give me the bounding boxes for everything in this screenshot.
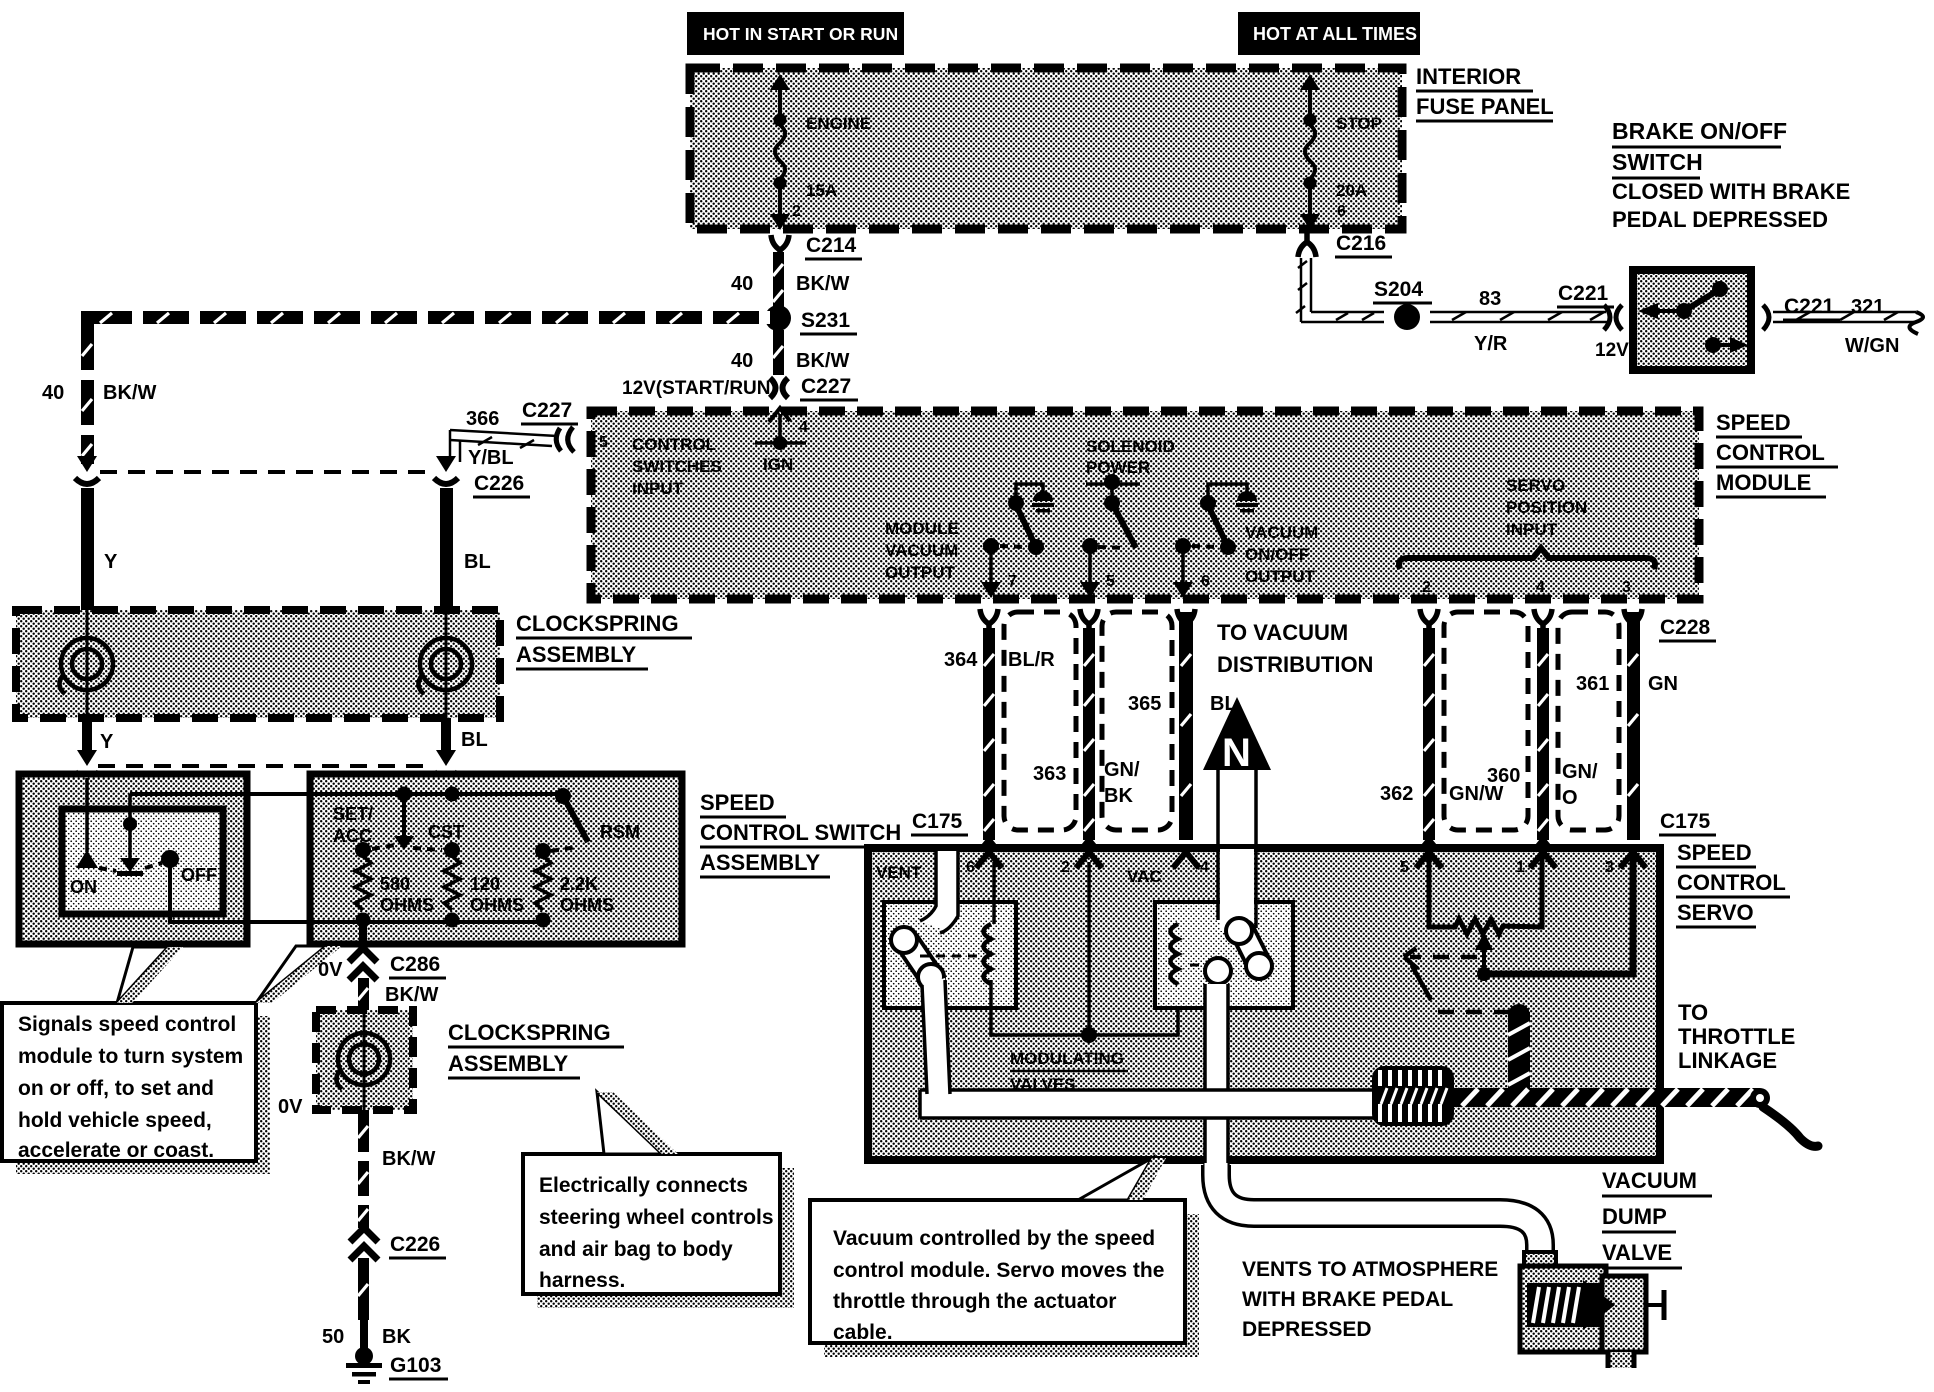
svg-text:IGN: IGN: [763, 455, 793, 474]
throttle cable hatched rod: [1450, 1088, 1818, 1146]
svg-text:Y: Y: [100, 731, 114, 753]
wire 83 Y/R (S204 run): [1308, 312, 1610, 322]
svg-text:G103: G103: [390, 1354, 441, 1377]
label C228: [1659, 616, 1716, 641]
wire Y below clockspring: [82, 718, 92, 752]
svg-text:C227: C227: [801, 375, 851, 398]
svg-text:40: 40: [731, 273, 753, 295]
svg-text:361: 361: [1576, 673, 1609, 695]
connector C175 dashed shell left B: [1102, 612, 1172, 830]
fuse ENGINE 15A: [775, 90, 785, 222]
pot wiper arrow: [1482, 948, 1486, 974]
svg-text:SPEED: SPEED: [1677, 840, 1752, 865]
wire pin6 to valve coil: [992, 862, 996, 924]
vacuum dump valve: [1520, 1252, 1664, 1368]
svg-text:CONTROL: CONTROL: [632, 435, 716, 454]
svg-text:362: 362: [1380, 783, 1413, 805]
svg-text:SPEED: SPEED: [1716, 410, 1791, 435]
vacuum down tube white: [1205, 984, 1228, 1168]
svg-text:steering wheel controls: steering wheel controls: [539, 1206, 774, 1229]
vent valve plunger: [891, 927, 944, 990]
svg-text:Signals speed control: Signals speed control: [18, 1013, 236, 1036]
svg-text:DUMP: DUMP: [1602, 1204, 1667, 1229]
label MODULATING VALVES: [1010, 1049, 1128, 1097]
svg-text:control module. Servo moves th: control module. Servo moves the: [833, 1259, 1164, 1282]
label INTERIOR FUSE PANEL: [1416, 64, 1554, 121]
resistor R 580 OHMS: [355, 856, 371, 910]
SET/ACC contact: [355, 842, 371, 858]
label C175 left: [911, 810, 968, 835]
label SPEED CONTROL SWITCH ASSEMBLY: [700, 790, 918, 877]
svg-text:W/GN: W/GN: [1845, 335, 1899, 357]
wire 365 BL: [1179, 612, 1193, 840]
svg-text:C216: C216: [1336, 232, 1386, 255]
wire 362 GN/W: [1423, 628, 1435, 840]
svg-text:OUTPUT: OUTPUT: [1245, 567, 1316, 586]
svg-text:SOLENOID: SOLENOID: [1086, 437, 1175, 456]
connector C175 dashed shell left A: [1004, 612, 1076, 830]
svg-text:12V(START/RUN): 12V(START/RUN): [622, 378, 777, 399]
CST to 120 dash: [413, 848, 442, 850]
C226 boundary dashed line: [100, 470, 432, 474]
svg-text:BK/W: BK/W: [382, 1148, 435, 1170]
svg-text:BK/W: BK/W: [796, 350, 849, 372]
svg-text:SET/: SET/: [333, 804, 373, 824]
svg-text:BRAKE ON/OFF: BRAKE ON/OFF: [1612, 118, 1787, 144]
svg-text:364: 364: [944, 649, 978, 671]
svg-text:CLOCKSPRING: CLOCKSPRING: [448, 1020, 611, 1045]
svg-text:OFF: OFF: [181, 865, 217, 885]
servo potentiometer loop (pin5 to pin1): [1429, 856, 1542, 934]
callout 3 pointer: [1078, 1158, 1166, 1200]
module switch 1 (module vacuum output): [981, 484, 1054, 598]
svg-text:on or off, to set and: on or off, to set and: [18, 1077, 214, 1100]
label VACUUM DUMP VALVE: [1602, 1168, 1712, 1268]
on/off wiper: [128, 794, 132, 858]
callout pointer from switch assembly box: [256, 946, 342, 1003]
speed control switch assembly box: [310, 774, 682, 944]
svg-text:LINKAGE: LINKAGE: [1678, 1048, 1777, 1073]
vent tube white: [920, 851, 958, 933]
wire 366 Y/BL from C227: [450, 430, 557, 462]
wire 364 BL/R: [983, 628, 995, 840]
svg-text:VALVE: VALVE: [1602, 1240, 1672, 1265]
svg-text:TO: TO: [1678, 1000, 1708, 1025]
svg-text:WITH BRAKE PEDAL: WITH BRAKE PEDAL: [1242, 1288, 1453, 1311]
svg-text:C227: C227: [522, 399, 572, 422]
svg-text:5: 5: [599, 434, 608, 451]
svg-text:and air bag to body: and air bag to body: [539, 1238, 733, 1261]
svg-text:ASSEMBLY: ASSEMBLY: [516, 642, 637, 667]
svg-text:MODULE: MODULE: [885, 519, 959, 538]
callout 2 pointer: [597, 1092, 678, 1154]
connector C286 left half: [77, 750, 97, 766]
svg-text:BK: BK: [382, 1326, 411, 1348]
svg-text:VACUUM: VACUUM: [885, 541, 958, 560]
svg-text:2: 2: [792, 203, 801, 220]
connector C226 left half (arrow+cup): [77, 456, 97, 472]
connector C286 chevrons up: [349, 948, 377, 980]
svg-text:HOT IN START OR RUN: HOT IN START OR RUN: [703, 24, 898, 44]
svg-text:360: 360: [1487, 765, 1520, 787]
clockspring coil 2: [363, 1010, 366, 1110]
svg-text:15A: 15A: [806, 181, 837, 200]
vent valve coil: [984, 924, 992, 984]
modulating valve left plate: [884, 902, 1016, 1008]
wiper wire to pin3: [1484, 856, 1633, 974]
svg-text:ACC: ACC: [333, 826, 372, 846]
svg-text:accelerate or coast.: accelerate or coast.: [18, 1139, 214, 1162]
brake switch contacts: [1638, 281, 1748, 353]
wire Y (left, to clockspring): [81, 488, 94, 610]
wire pin2 down to junction: [1087, 862, 1091, 1035]
splice S204: [1394, 304, 1420, 330]
node on rail 2: [445, 787, 460, 802]
connector C214: [771, 235, 789, 262]
svg-text:BL: BL: [461, 729, 488, 751]
svg-text:5: 5: [1106, 573, 1115, 590]
callout: signals speed control: [2, 1003, 270, 1174]
svg-text:INPUT: INPUT: [1506, 520, 1558, 539]
svg-text:3: 3: [1622, 579, 1631, 596]
svg-text:TO VACUUM: TO VACUUM: [1217, 620, 1348, 645]
wire 40 BK/W (C214 to S231): [773, 252, 784, 312]
svg-text:SERVO: SERVO: [1506, 476, 1565, 495]
callout: electrically connects: [523, 1154, 794, 1308]
label CLOCKSPRING ASSEMBLY: [516, 611, 692, 669]
connector C228 dashed shell right A: [1444, 612, 1528, 830]
svg-text:Y: Y: [104, 551, 118, 573]
svg-text:ON/OFF: ON/OFF: [1245, 545, 1309, 564]
module switch 2 (solenoid power): [1080, 474, 1140, 598]
resistor R 120 OHMS: [444, 856, 460, 910]
svg-text:6: 6: [1337, 203, 1346, 220]
wire 40 BK/W horizontal (S231 to left): [81, 311, 770, 324]
svg-text:SERVO: SERVO: [1677, 900, 1754, 925]
svg-text:4: 4: [799, 419, 808, 436]
svg-text:S231: S231: [801, 309, 850, 332]
svg-text:VAC: VAC: [1127, 867, 1162, 886]
svg-text:C214: C214: [806, 234, 857, 257]
wire 40 BK/W (S231 to C227): [773, 330, 784, 375]
pin 4 IGN arrow: [755, 408, 808, 474]
svg-text:DEPRESSED: DEPRESSED: [1242, 1318, 1372, 1341]
brake on/off switch box: [1633, 270, 1751, 370]
svg-text:N: N: [1222, 731, 1251, 775]
svg-text:Electrically connects: Electrically connects: [539, 1174, 748, 1197]
wire OFF down and right: [170, 864, 310, 922]
svg-text:Vacuum controlled by the speed: Vacuum controlled by the speed: [833, 1227, 1155, 1250]
svg-text:40: 40: [42, 382, 64, 404]
svg-text:ON: ON: [70, 877, 97, 897]
wire BK/W below clockspring 2: [358, 1110, 369, 1228]
wire into ON contact: [85, 778, 89, 852]
120 contact: [444, 842, 460, 858]
servo pin arrows and numbers: [976, 852, 1002, 868]
svg-text:6: 6: [1201, 573, 1210, 590]
svg-text:throttle through the actuator: throttle through the actuator: [833, 1290, 1116, 1313]
svg-text:CLOSED WITH BRAKE: CLOSED WITH BRAKE: [1612, 179, 1850, 204]
svg-text:Y/R: Y/R: [1474, 333, 1508, 355]
svg-text:BK: BK: [1104, 785, 1133, 807]
svg-text:ENGINE: ENGINE: [806, 114, 871, 133]
fuse STOP 20A: [1305, 90, 1315, 222]
connector C221 left: [1557, 282, 1614, 307]
svg-text:BK/W: BK/W: [103, 382, 156, 404]
connector C216: [1298, 230, 1316, 257]
svg-text:RSM: RSM: [600, 822, 640, 842]
wire BL below clockspring: [441, 718, 451, 752]
label SPEED CONTROL SERVO: [1676, 840, 1790, 927]
header HOT AT ALL TIMES: [1238, 12, 1420, 55]
svg-text:CLOCKSPRING: CLOCKSPRING: [516, 611, 679, 636]
label CLOCKSPRING ASSEMBLY 2: [448, 1020, 624, 1078]
speed control module box: [591, 411, 1699, 599]
svg-text:C226: C226: [390, 1233, 440, 1256]
vent tube down white: [922, 978, 950, 1094]
vertical linkage rod hatched: [1508, 1004, 1530, 1094]
interior fuse panel box: [690, 68, 1402, 229]
svg-text:STOP: STOP: [1336, 114, 1382, 133]
svg-text:6: 6: [966, 859, 975, 876]
svg-text:OHMS: OHMS: [470, 895, 524, 915]
label BRAKE ON/OFF SWITCH: [1612, 118, 1850, 232]
svg-text:CONTROL: CONTROL: [1677, 870, 1786, 895]
modulating valve right plate: [1155, 902, 1293, 1008]
svg-text:120: 120: [470, 874, 500, 894]
ground G103: [346, 1347, 382, 1384]
callout pointer from on/off box: [117, 947, 183, 1003]
svg-text:THROTTLE: THROTTLE: [1678, 1024, 1795, 1049]
svg-text:580: 580: [380, 874, 410, 894]
wire 50 BK: [358, 1258, 369, 1320]
switch assembly top rail: [310, 792, 563, 796]
2.2K contact: [535, 843, 551, 859]
svg-text:module to turn system: module to turn system: [18, 1045, 243, 1068]
svg-text:BL: BL: [464, 551, 491, 573]
svg-text:2: 2: [1061, 859, 1070, 876]
svg-text:2.2K: 2.2K: [560, 874, 598, 894]
wire 363 GN/BK: [1083, 628, 1095, 840]
svg-text:PEDAL DEPRESSED: PEDAL DEPRESSED: [1612, 207, 1828, 232]
svg-text:321: 321: [1851, 296, 1884, 318]
svg-text:20A: 20A: [1336, 181, 1367, 200]
wire 360 GN/O: [1537, 628, 1549, 840]
speed control servo box: [868, 848, 1660, 1160]
svg-text:CONTROL SWITCH: CONTROL SWITCH: [700, 820, 901, 845]
wire BL (right, to clockspring): [440, 488, 453, 610]
svg-text:C221: C221: [1784, 295, 1835, 318]
svg-text:S204: S204: [1374, 278, 1423, 301]
svg-text:OHMS: OHMS: [380, 895, 434, 915]
svg-text:VENTS TO ATMOSPHERE: VENTS TO ATMOSPHERE: [1242, 1258, 1498, 1281]
svg-text:POWER: POWER: [1086, 458, 1150, 477]
svg-text:DISTRIBUTION: DISTRIBUTION: [1217, 652, 1373, 677]
vac valve plunger: [1205, 918, 1272, 984]
on/off switch inner plate: [62, 809, 223, 914]
header HOT IN START OR RUN: [687, 12, 904, 55]
vac tube from N arrow into valve: [1218, 849, 1256, 931]
splice S231: [765, 305, 791, 331]
svg-text:VACUUM: VACUUM: [1602, 1168, 1697, 1193]
svg-text:365: 365: [1128, 693, 1161, 715]
connector C226 right half: [436, 456, 456, 472]
svg-text:C226: C226: [474, 472, 524, 495]
svg-text:GN: GN: [1648, 673, 1678, 695]
connector C226 chevrons up: [350, 1228, 378, 1260]
connector C286 right half: [436, 750, 456, 766]
resistor R 2.2K OHMS: [535, 856, 551, 910]
svg-text:GN/: GN/: [1562, 761, 1598, 783]
svg-text:VENT: VENT: [876, 863, 922, 882]
servo position input bracket: [1399, 548, 1655, 569]
svg-text:hold vehicle speed,: hold vehicle speed,: [18, 1109, 212, 1132]
label SPEED CONTROL MODULE: [1716, 410, 1838, 497]
speed control on/off switch box: [19, 774, 247, 944]
wire from 363 down: [359, 922, 367, 950]
svg-text:cable.: cable.: [833, 1321, 893, 1344]
svg-text:INTERIOR: INTERIOR: [1416, 64, 1521, 89]
RSM switch lever: [555, 788, 571, 804]
svg-text:C286: C286: [390, 953, 440, 976]
svg-text:2: 2: [1422, 579, 1431, 596]
wire wiper to switch assembly: [130, 792, 310, 796]
wire 40 BK/W left vertical: [81, 324, 94, 464]
svg-text:CST: CST: [428, 822, 464, 842]
svg-text:SWITCHES: SWITCHES: [632, 457, 722, 476]
svg-text:CONTROL: CONTROL: [1716, 440, 1825, 465]
svg-text:POSITION: POSITION: [1506, 498, 1587, 517]
svg-text:C228: C228: [1660, 616, 1711, 639]
svg-text:C221: C221: [1558, 282, 1609, 305]
label C175 right: [1659, 810, 1716, 835]
vacuum tube servo to dump valve: [1216, 1163, 1540, 1256]
pot mech link dashed: [1404, 948, 1512, 1012]
ON contact triangle: [76, 850, 98, 868]
actuator spring: [1372, 1066, 1454, 1126]
svg-text:FUSE PANEL: FUSE PANEL: [1416, 94, 1554, 119]
svg-text:50: 50: [322, 1326, 344, 1348]
svg-text:363: 363: [1033, 763, 1066, 785]
svg-text:7: 7: [1008, 573, 1017, 590]
svg-text:BK/W: BK/W: [796, 273, 849, 295]
node on rail: [397, 787, 412, 802]
callout: vacuum controlled: [810, 1200, 1199, 1357]
svg-text:0V: 0V: [278, 1096, 303, 1118]
svg-text:O: O: [1562, 787, 1578, 809]
svg-text:HOT AT ALL TIMES: HOT AT ALL TIMES: [1253, 24, 1417, 44]
connector C221 right: [1763, 305, 1769, 330]
svg-text:C175: C175: [912, 810, 963, 833]
module switch 3 (vacuum on/off output): [1173, 484, 1258, 598]
connector C227 fork: [556, 427, 574, 452]
svg-text:366: 366: [466, 408, 499, 430]
OFF contact: [161, 850, 179, 868]
actuator rod channel white: [920, 1090, 1375, 1118]
clockspring coil left: [86, 610, 89, 718]
CST wiper arrow: [402, 794, 406, 836]
svg-text:SPEED: SPEED: [700, 790, 775, 815]
svg-text:MODULE: MODULE: [1716, 470, 1811, 495]
svg-text:OUTPUT: OUTPUT: [885, 563, 956, 582]
wire 361 GN: [1627, 612, 1640, 840]
svg-text:INPUT: INPUT: [632, 479, 684, 498]
clockspring coil right: [445, 610, 448, 718]
svg-text:4: 4: [1200, 859, 1209, 876]
svg-text:ASSEMBLY: ASSEMBLY: [700, 850, 821, 875]
bottom rail connecting resistors: [247, 920, 543, 924]
svg-text:OHMS: OHMS: [560, 895, 614, 915]
svg-text:GN/: GN/: [1104, 759, 1140, 781]
connector C227: [770, 378, 788, 398]
vacuum arrow N: [1203, 697, 1271, 925]
modulating valves common wire: [991, 980, 1178, 1035]
svg-text:MODULATING: MODULATING: [1010, 1049, 1124, 1068]
svg-text:83: 83: [1479, 288, 1501, 310]
svg-text:12V: 12V: [1595, 340, 1629, 361]
svg-text:ASSEMBLY: ASSEMBLY: [448, 1051, 569, 1076]
svg-text:BL/R: BL/R: [1008, 649, 1055, 671]
svg-text:1: 1: [1516, 859, 1525, 876]
clockspring assembly box 2: [316, 1010, 413, 1110]
svg-text:C175: C175: [1660, 810, 1711, 833]
svg-text:Y/BL: Y/BL: [468, 447, 514, 469]
svg-text:3: 3: [1605, 859, 1614, 876]
svg-text:harness.: harness.: [539, 1269, 625, 1292]
vac valve coil: [1171, 924, 1179, 984]
svg-text:5: 5: [1400, 859, 1409, 876]
connector C228 dashed shell right B: [1558, 612, 1619, 830]
clockspring assembly box 1: [16, 610, 500, 718]
wire 321 W/GN: [1773, 312, 1923, 334]
connector C286 dashed line: [98, 764, 432, 768]
svg-text:40: 40: [731, 350, 753, 372]
wire BK/W to clockspring 2: [358, 978, 369, 1010]
svg-text:4: 4: [1536, 579, 1545, 596]
svg-text:BK/W: BK/W: [385, 984, 438, 1006]
wire C216 down to brake switch (open style): [1296, 258, 1311, 322]
svg-text:SWITCH: SWITCH: [1612, 149, 1703, 175]
svg-text:VACUUM: VACUUM: [1245, 523, 1318, 542]
